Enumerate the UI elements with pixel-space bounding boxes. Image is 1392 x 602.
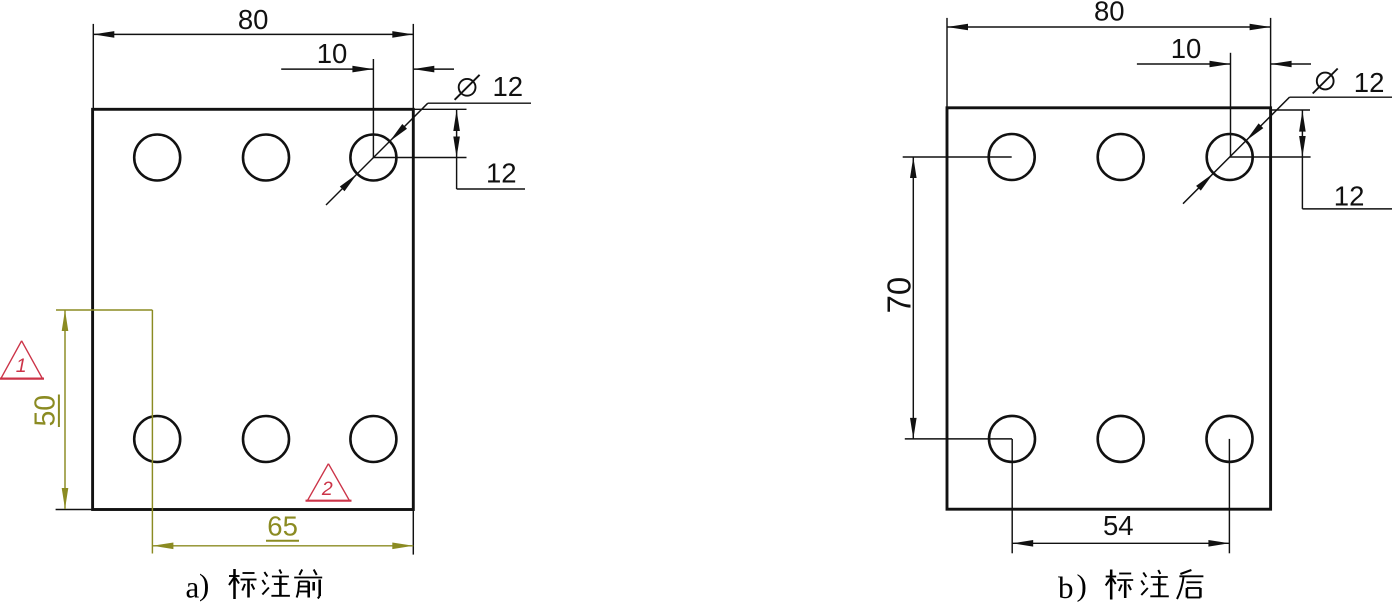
dim 80 (A) dimension line [93, 33, 413, 35]
dia leader (B) arrow lower [1196, 173, 1213, 190]
dim 10 (B) arrow outer [1271, 61, 1292, 68]
hole B6 bottom-right Ø12 [1207, 416, 1253, 462]
dia symbol (B) [1313, 69, 1338, 94]
dim 50 arrow down (olive) [62, 488, 69, 509]
dim 10 (B) outside line [1271, 63, 1311, 65]
dim 10 (B) dimension line tail [1137, 63, 1231, 65]
hole A3 top-right Ø12 [350, 135, 396, 181]
dim 12 (B) label underline [1302, 208, 1392, 210]
dim 50 corner vertical line (olive) [151, 310, 153, 554]
dim 80 (A) value label [238, 4, 269, 35]
dim 12 (B) top reference line [1272, 109, 1310, 111]
caption B char 后 [1177, 570, 1203, 599]
dim 80 (B) extension line left [946, 18, 948, 108]
svg-text:50: 50 [30, 395, 62, 427]
dim 50 extension line top (olive) [56, 309, 152, 311]
dim 70 value label (rotated) [881, 277, 918, 314]
dim 65 label underline (olive) [266, 540, 299, 542]
marker triangle 1 outline (red) [1, 341, 42, 379]
dia symbol (A) [455, 75, 480, 100]
plate B outline [947, 108, 1271, 509]
dim 65 arrow left (olive) [152, 543, 173, 550]
dim 70 extension line top [903, 156, 1012, 158]
marker triangle 1 baseline (red) [0, 378, 44, 380]
dim 54 extension line left [1011, 439, 1013, 553]
dim 80 (A) extension line left [92, 24, 94, 109]
dim 54 value label [1103, 510, 1134, 541]
hole A6 bottom-right Ø12 [350, 416, 396, 462]
dim 10 (A) arrow inner [352, 66, 373, 73]
dim 10 (A) value label [317, 38, 348, 69]
svg-text:70: 70 [881, 277, 918, 314]
dim 50 extension line bottom (black) [56, 509, 93, 511]
dim 65 extension line right (black) [412, 510, 414, 555]
caption B char 注 [1141, 570, 1169, 596]
hole B2 top-mid Ø12 [1098, 134, 1144, 180]
dim 65 value label (olive) [267, 511, 298, 542]
dim 70 arrow down [910, 418, 917, 439]
dim 12 (B) bottom reference line [1230, 156, 1311, 158]
dim 54 arrow right [1208, 540, 1229, 547]
dim 65 arrow right (olive) [392, 543, 413, 550]
dim 12 (A) arrow down [453, 137, 460, 158]
hole B5 bottom-mid Ø12 [1098, 416, 1144, 462]
hole B1 top-left Ø12 [989, 134, 1035, 180]
dia leader (B) arrow upper [1246, 123, 1263, 140]
dim 54 arrow left [1012, 540, 1033, 547]
dia leader (B) horizontal line [1290, 96, 1392, 98]
dim 10 (B) value label [1171, 33, 1202, 64]
marker triangle 2 outline (red) [308, 464, 350, 501]
svg-text:80: 80 [238, 4, 269, 35]
dim 10 (B) arrow inner [1210, 61, 1231, 68]
dia leader (A) arrow upper [390, 124, 407, 141]
hole A1 top-left Ø12 [134, 135, 180, 181]
dim 70 dimension line [912, 157, 914, 439]
dim 70 extension line bottom [905, 438, 1012, 440]
dia leader (A) arrow lower [340, 174, 357, 191]
caption B latin 'b）' [1058, 568, 1087, 602]
svg-text:65: 65 [267, 511, 298, 542]
dim 12 (B) dimension line [1301, 110, 1303, 209]
caption A char 注 [262, 570, 290, 596]
dim 70 arrow up [910, 157, 917, 178]
dim 50 label underline (olive) [58, 395, 60, 428]
caption B char 标 [1106, 570, 1134, 600]
svg-text:1: 1 [16, 355, 27, 377]
dim 54 extension line right [1228, 439, 1230, 553]
svg-text:10: 10 [317, 38, 348, 69]
dim 10 (A) arrow outer [413, 66, 434, 73]
caption A char 前 [294, 570, 322, 599]
dim 10 (B) hole centerline [1230, 53, 1232, 157]
dim 54 dimension line [1012, 542, 1229, 544]
svg-text:12: 12 [486, 158, 517, 189]
dim 12 (A) value label [486, 158, 517, 189]
caption A char 标 [229, 569, 257, 599]
dim 10 (A) hole centerline [372, 59, 374, 158]
marker triangle 2 numeral 2 [321, 478, 333, 500]
dim 80 (B) arrow left [947, 24, 968, 31]
hole B3 top-right Ø12 [1207, 134, 1253, 180]
svg-text:80: 80 [1094, 0, 1125, 27]
dim 65 dimension line (olive) [152, 545, 413, 547]
svg-text:54: 54 [1103, 510, 1134, 541]
svg-text:): ) [199, 567, 209, 602]
dim 12 (B) arrow up [1299, 111, 1306, 132]
hole A5 bottom-mid Ø12 [243, 416, 289, 462]
hole B4 bottom-left Ø12 [989, 416, 1035, 462]
dim 12 (B) arrow down [1299, 136, 1306, 157]
dia leader (B) diagonal line [1183, 97, 1290, 204]
dim 50 arrow up (olive) [62, 310, 69, 331]
dia leader (A) diagonal line [326, 103, 428, 205]
svg-text:2: 2 [321, 478, 333, 500]
svg-text:b: b [1058, 570, 1074, 602]
dim 10 (A) dimension line tail [281, 68, 373, 70]
svg-text:a: a [186, 570, 200, 602]
dim 12 (A) dimension line [456, 109, 458, 189]
dim 10 (A) outside line [413, 68, 454, 70]
dim 80 (B) dimension line [947, 26, 1271, 28]
caption A latin 'a）' [186, 567, 210, 602]
marker triangle 2 baseline (red) [306, 500, 352, 502]
dim 80 (B) value label [1094, 0, 1125, 27]
svg-text:10: 10 [1171, 33, 1202, 64]
svg-text:12: 12 [493, 71, 524, 102]
plate A outline [93, 109, 414, 509]
dim 12 (A) bottom reference line [373, 157, 466, 159]
dim 50 dimension line (olive) [64, 310, 66, 509]
dia value label (B) 12 [1354, 67, 1385, 98]
dim 12 (B) value label [1334, 180, 1365, 211]
dim 50 value label (rotated, olive) [30, 395, 62, 427]
dim 80 (B) extension line right [1270, 18, 1272, 108]
dia leader (A) horizontal line [428, 102, 531, 104]
dim 12 (A) arrow up [453, 110, 460, 131]
hole A2 top-mid Ø12 [243, 135, 289, 181]
hole A4 bottom-left Ø12 [134, 416, 180, 462]
dim 12 (A) top reference line [414, 108, 467, 110]
dim 12 (A) label underline [457, 188, 525, 190]
svg-text:12: 12 [1334, 180, 1365, 211]
svg-text:12: 12 [1354, 67, 1385, 98]
dim 80 (A) arrow right [392, 31, 413, 38]
dia value label (A) 12 [493, 71, 524, 102]
marker triangle 1 numeral 1 [16, 355, 27, 377]
svg-text:): ) [1077, 568, 1087, 602]
dim 80 (A) arrow left [93, 31, 114, 38]
dim 80 (B) arrow right [1250, 24, 1271, 31]
dim 80 (A) extension line right [412, 24, 414, 109]
